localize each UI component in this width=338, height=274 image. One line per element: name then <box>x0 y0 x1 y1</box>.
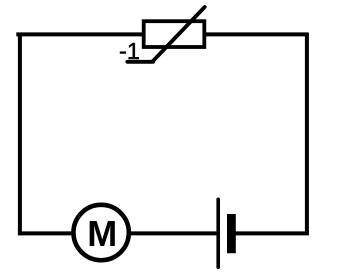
motor M circle <box>73 205 128 260</box>
wire right vertical <box>305 33 309 233</box>
wire top-left horizontal <box>16 32 145 36</box>
wire top-right horizontal <box>203 32 309 36</box>
wire left vertical <box>18 33 22 235</box>
wire bottom-left horizontal <box>18 231 74 235</box>
thermistor body rectangle <box>144 21 205 47</box>
svg-text:-1: -1 <box>119 38 140 64</box>
thermistor bent foot <box>127 60 153 64</box>
battery short thick plate <box>227 214 236 253</box>
thermistor diagonal stroke <box>153 7 205 62</box>
wire bottom-right horizontal <box>235 231 309 235</box>
svg-text:M: M <box>87 213 117 254</box>
battery long thin plate <box>216 199 220 267</box>
wire bottom-middle horizontal <box>128 231 218 235</box>
